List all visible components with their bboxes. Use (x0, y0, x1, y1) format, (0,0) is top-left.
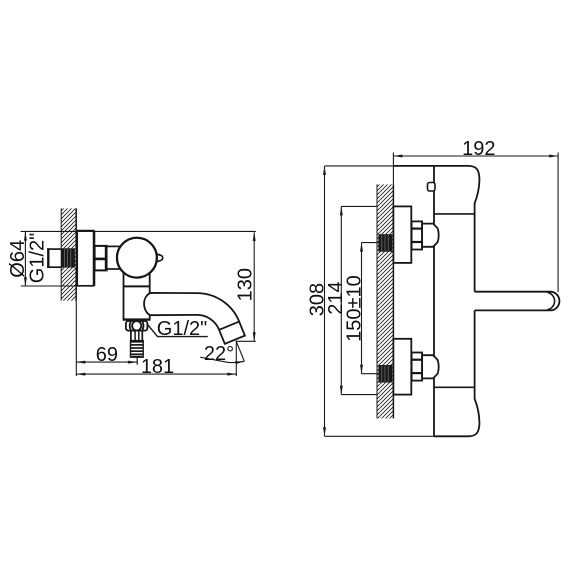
dimension 130 (235, 232, 257, 341)
svg-text:G1/2": G1/2" (157, 318, 207, 340)
inlet nipple pipe (47, 248, 62, 268)
tailpiece (131, 331, 142, 341)
angle 22 degrees (200, 341, 244, 365)
dimension Ø64 with G1/2" (left labels) (7, 231, 256, 286)
check valve nut (126, 321, 147, 331)
column joint line (124, 285, 150, 287)
handle nub (temperature pointer) (154, 253, 163, 263)
threaded block in wall (left view) (61, 248, 75, 267)
threaded block upper (right view) (378, 234, 392, 252)
spout (144, 293, 245, 344)
column bottom edge (123, 318, 150, 320)
wall (left view) (61, 208, 77, 300)
outlet pipe (475, 292, 560, 311)
wall screw cover square (428, 183, 436, 192)
mixer body outline (393, 166, 479, 436)
svg-text:G1/2": G1/2" (27, 233, 49, 283)
hose barb (131, 341, 144, 365)
union plate lower (393, 339, 411, 395)
dimension 308 (307, 166, 435, 436)
body cylinder between nut and ball (107, 246, 121, 269)
dimension 181 (76, 341, 236, 379)
mixer body back edge (433, 166, 435, 436)
wall (right view) (377, 184, 394, 418)
hex nut at flange (95, 246, 107, 271)
union nut upper (412, 221, 423, 249)
threaded block lower (right view) (378, 365, 392, 383)
escutcheon flange (77, 231, 94, 286)
svg-text:181: 181 (141, 356, 174, 378)
aerator cut line (219, 322, 239, 330)
ball over column (117, 238, 157, 278)
dimension 192 (393, 138, 558, 292)
union nut lower (412, 353, 423, 381)
svg-text:69: 69 (96, 344, 118, 366)
dimension 69 (76, 301, 137, 376)
svg-text:192: 192 (462, 138, 495, 160)
body column (124, 269, 150, 320)
dimension 214 (325, 206, 377, 394)
union plate upper (393, 206, 411, 263)
dimension 150 plus-minus 10 (344, 243, 379, 374)
svg-text:22°: 22° (204, 343, 234, 365)
svg-text:150±10: 150±10 (344, 275, 366, 342)
label G1/2" at check valve (148, 318, 208, 340)
union cap lower (422, 355, 439, 378)
ball handle (117, 238, 157, 278)
union cap upper (422, 224, 439, 247)
svg-text:130: 130 (235, 268, 257, 301)
